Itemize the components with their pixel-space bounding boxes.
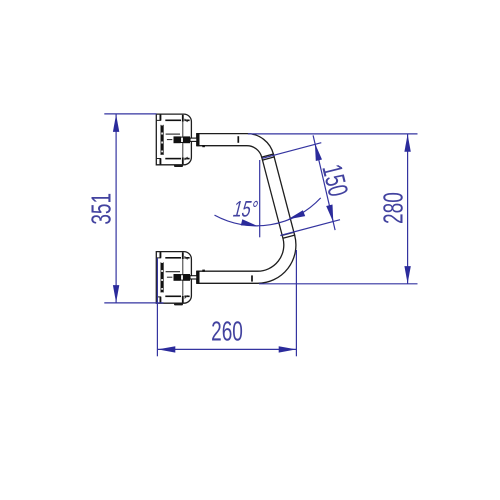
svg-text:260: 260 [211,316,243,348]
svg-text:351: 351 [86,193,118,225]
svg-text:280: 280 [378,192,410,224]
